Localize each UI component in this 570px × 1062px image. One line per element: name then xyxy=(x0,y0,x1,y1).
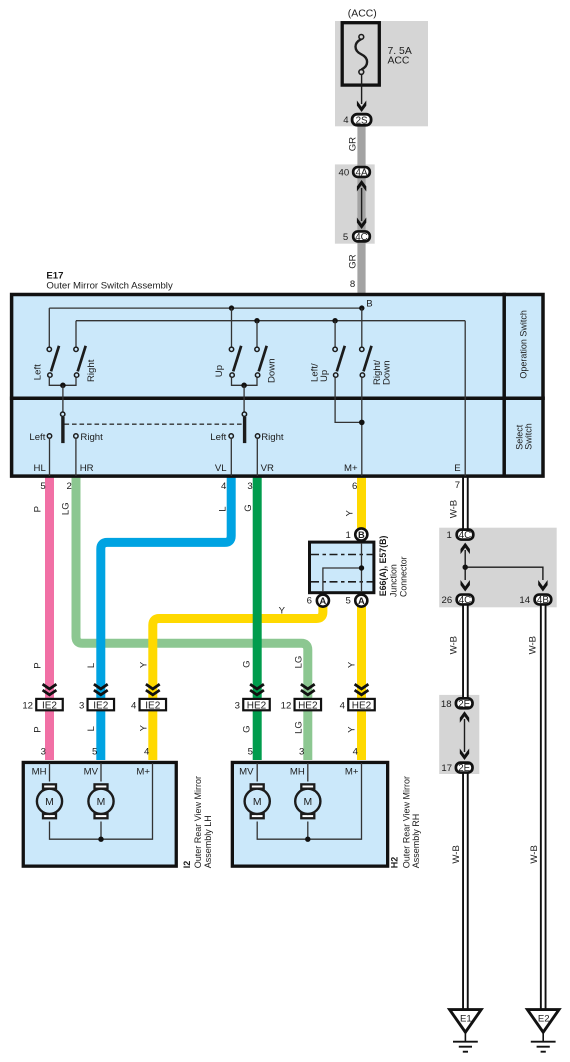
svg-text:Junction: Junction xyxy=(389,564,399,597)
select switch knob LH xyxy=(47,412,78,443)
svg-text:Assembly RH: Assembly RH xyxy=(411,814,421,869)
wire from fuse to connector 2S xyxy=(361,74,363,104)
svg-text:ACC: ACC xyxy=(388,56,410,67)
svg-text:M+: M+ xyxy=(344,463,358,474)
svg-text:7: 7 xyxy=(455,480,460,491)
connector oval 2E pin 18 xyxy=(441,698,473,709)
svg-text:Right: Right xyxy=(86,359,97,382)
svg-text:I2: I2 xyxy=(182,861,192,869)
svg-text:HL: HL xyxy=(34,463,47,474)
svg-text:2E: 2E xyxy=(458,699,470,710)
svg-text:5: 5 xyxy=(248,747,253,758)
LH internal wiring xyxy=(50,763,153,839)
arrow up toward 4C xyxy=(461,543,470,555)
svg-text:4C: 4C xyxy=(459,530,472,541)
arrow up toward 4A xyxy=(357,180,366,192)
svg-text:6: 6 xyxy=(307,596,312,607)
svg-text:SelectSwitch: SelectSwitch xyxy=(514,423,533,450)
wire W-B from connector 4B pin 14 to ground E2 xyxy=(540,604,547,1009)
svg-text:Left: Left xyxy=(33,364,44,380)
svg-text:2S: 2S xyxy=(356,116,368,127)
wire G from pin VR to HE2 pin 3 xyxy=(253,477,262,760)
svg-text:VR: VR xyxy=(261,463,274,474)
svg-text:HR: HR xyxy=(80,463,94,474)
arrow down toward 4C xyxy=(357,218,366,230)
switch contact Left xyxy=(47,346,59,378)
svg-text:5: 5 xyxy=(92,747,97,758)
connector oval 4C pin 5 xyxy=(343,231,370,242)
wire LG from pin HR to HE2 pin 12 xyxy=(76,477,308,760)
connector IE2 pin 12 xyxy=(22,699,62,712)
svg-text:W-B: W-B xyxy=(529,845,540,863)
operation/select divider xyxy=(10,397,545,401)
bus line2 xyxy=(76,320,465,322)
side column divider xyxy=(502,293,506,476)
switch contact Left/Up xyxy=(333,346,345,378)
stub to Up switch xyxy=(229,305,234,310)
svg-text:MV: MV xyxy=(84,766,99,777)
svg-text:4: 4 xyxy=(340,700,346,711)
svg-text:6: 6 xyxy=(352,481,357,492)
svg-text:Operation Switch: Operation Switch xyxy=(519,310,529,379)
svg-text:12: 12 xyxy=(22,700,33,711)
stub to Right switch xyxy=(75,321,77,347)
svg-text:LG: LG xyxy=(60,502,71,515)
stub to Right/Down switch xyxy=(361,308,363,347)
node B dot and label xyxy=(359,305,364,310)
wire Y from junction A pin 6 to IE2 pin 4 xyxy=(153,605,323,760)
arrow down toward 2E pin 17 xyxy=(460,749,469,761)
svg-text:Right: Right xyxy=(261,432,284,443)
svg-text:Right/Down: Right/Down xyxy=(372,360,393,385)
svg-text:H2: H2 xyxy=(390,857,400,869)
connector oval 4C pin 1 xyxy=(447,530,474,541)
connector shading (2E/2E in-line connector) xyxy=(439,695,479,774)
outer rear view mirror assembly LH box I2 xyxy=(23,762,176,866)
wire L from pin VL to IE2 pin 3 xyxy=(101,477,231,760)
connector shading (4A/4C in-line connector) xyxy=(335,164,375,243)
svg-text:17: 17 xyxy=(441,763,452,774)
arrow into IE2 pin 12 xyxy=(43,684,57,695)
connector IE2 pin 4 xyxy=(131,699,166,712)
svg-text:GR: GR xyxy=(347,137,358,151)
svg-text:L: L xyxy=(86,662,97,668)
svg-text:VL: VL xyxy=(215,463,227,474)
join Up+Down to select xyxy=(232,378,258,386)
svg-text:G: G xyxy=(242,660,253,667)
svg-text:B: B xyxy=(358,530,365,540)
svg-text:3: 3 xyxy=(235,700,240,711)
arrow into HE2 pin 4 xyxy=(355,684,369,695)
svg-text:MH: MH xyxy=(290,766,305,777)
wire Y from switch pin M+ to junction B xyxy=(357,477,366,529)
svg-text:18: 18 xyxy=(441,699,452,710)
junction pin 6 circle A xyxy=(307,595,329,607)
svg-text:Connector: Connector xyxy=(399,556,409,597)
arrow into HE2 pin 3 xyxy=(250,684,264,695)
ground E1 xyxy=(450,1010,482,1052)
fuse 7.5A ACC box xyxy=(342,23,379,85)
svg-text:14: 14 xyxy=(519,595,530,606)
svg-text:Down: Down xyxy=(267,358,278,383)
connector shading (4C/4B junction block) xyxy=(439,528,557,608)
connector shading (ACC fuse block) xyxy=(335,21,428,126)
svg-text:MH: MH xyxy=(32,766,47,777)
svg-text:2E: 2E xyxy=(458,763,470,774)
svg-text:W-B: W-B xyxy=(451,845,462,863)
ground E2 xyxy=(527,1010,559,1052)
svg-text:Y: Y xyxy=(345,510,356,517)
wire P from pin HL to IE2 pin 12 xyxy=(45,477,54,760)
svg-text:IE2: IE2 xyxy=(93,700,108,711)
join Left+Right to select xyxy=(49,378,76,386)
link wire 4C to 4C/4B xyxy=(465,550,543,580)
svg-text:Y: Y xyxy=(139,661,150,668)
svg-text:Outer Rear View Mirror: Outer Rear View Mirror xyxy=(193,776,203,868)
svg-text:Outer Mirror Switch Assembly: Outer Mirror Switch Assembly xyxy=(46,281,173,292)
svg-text:Outer Rear View Mirror: Outer Rear View Mirror xyxy=(402,776,412,868)
switch contact Right/Down xyxy=(360,346,372,378)
arrow into connector 2S xyxy=(357,101,366,113)
svg-text:Up: Up xyxy=(214,365,225,377)
wire to pin E inside box xyxy=(464,321,466,476)
wire W-B from pin E to connector 4C pin 1 xyxy=(462,477,469,529)
wire Y from junction A pin 5 to HE2 pin 4 xyxy=(357,605,366,760)
junction internal wiring xyxy=(323,543,362,592)
svg-text:HE2: HE2 xyxy=(247,700,267,711)
switch contact Right xyxy=(74,346,86,378)
stub to Left switch xyxy=(48,308,50,347)
svg-text:(ACC): (ACC) xyxy=(348,8,377,19)
svg-text:LG: LG xyxy=(293,721,304,734)
switch contact Up xyxy=(229,346,241,378)
join Left/Up to M+ xyxy=(335,378,362,423)
svg-text:G: G xyxy=(242,725,253,732)
svg-text:A: A xyxy=(320,596,327,606)
svg-text:40: 40 xyxy=(339,168,350,179)
svg-text:MV: MV xyxy=(239,766,254,777)
link wire 2E to 2E xyxy=(464,719,466,752)
wire W-B from connector 2E pin 17 to ground E1 xyxy=(462,772,469,1009)
svg-text:A: A xyxy=(358,596,365,606)
svg-text:4: 4 xyxy=(221,481,227,492)
wire GR from connector 2S to switch pin 8 xyxy=(357,124,365,294)
junction pin 1 circle B xyxy=(345,528,367,541)
svg-text:2: 2 xyxy=(67,481,72,492)
arrow into IE2 pin 4 xyxy=(146,684,160,695)
stub to Left/Up switch xyxy=(332,318,337,323)
switch contact Down xyxy=(255,346,267,378)
svg-text:Y: Y xyxy=(346,661,357,668)
svg-text:L: L xyxy=(86,725,97,731)
svg-text:1: 1 xyxy=(447,530,452,541)
junction bus bar upper (dash-dot) xyxy=(311,554,373,556)
svg-text:4: 4 xyxy=(144,747,150,758)
svg-text:4C: 4C xyxy=(459,595,472,606)
RH internal wiring xyxy=(257,763,361,839)
svg-text:5: 5 xyxy=(345,596,350,607)
connector oval 4A pin 40 xyxy=(339,167,370,178)
svg-text:Assembly LH: Assembly LH xyxy=(203,815,213,868)
motor M horizontal RH xyxy=(295,784,320,818)
svg-text:Y: Y xyxy=(346,726,357,733)
svg-text:E2: E2 xyxy=(538,1013,550,1024)
svg-text:IE2: IE2 xyxy=(145,700,160,711)
svg-text:26: 26 xyxy=(442,595,453,606)
svg-text:P: P xyxy=(33,506,44,512)
svg-text:GR: GR xyxy=(347,254,358,268)
svg-text:LG: LG xyxy=(293,656,304,669)
junction bus bar lower (dash-dot) xyxy=(311,581,373,583)
svg-text:Right: Right xyxy=(80,432,103,443)
wire W-B from connector 4C pin 26 to connector 2E pin 18 xyxy=(462,604,469,698)
svg-text:W-B: W-B xyxy=(449,500,460,518)
arrow into IE2 pin 3 xyxy=(94,684,108,695)
svg-text:Left: Left xyxy=(210,432,226,443)
motor M vertical RH xyxy=(245,784,270,818)
svg-text:M+: M+ xyxy=(345,766,359,777)
connector IE2 pin 3 xyxy=(79,699,114,712)
junction pin 5 circle A xyxy=(345,595,367,607)
svg-text:4: 4 xyxy=(131,700,137,711)
svg-text:3: 3 xyxy=(299,747,304,758)
link wire between 4A and 4C xyxy=(361,188,363,221)
svg-text:G: G xyxy=(243,504,254,511)
svg-text:W-B: W-B xyxy=(449,636,460,654)
svg-text:4A: 4A xyxy=(356,168,368,179)
svg-text:P: P xyxy=(33,726,44,732)
join Right/Down to M+ pin xyxy=(361,378,363,477)
svg-text:W-B: W-B xyxy=(527,636,538,654)
svg-text:B: B xyxy=(366,299,372,310)
connector oval 2S pin 4 xyxy=(343,114,371,126)
connector oval 4C pin 26 xyxy=(442,595,474,606)
svg-text:IE2: IE2 xyxy=(42,700,57,711)
mechanical link dashed xyxy=(65,423,243,425)
connector oval 4B pin 14 xyxy=(519,595,551,606)
svg-text:3: 3 xyxy=(79,700,84,711)
bus line1 from node B xyxy=(49,307,362,309)
select contact drops xyxy=(50,438,258,476)
arrow into HE2 pin 12 xyxy=(301,684,315,695)
svg-text:4: 4 xyxy=(343,115,349,126)
connector HE2 pin 12 xyxy=(281,699,321,712)
svg-text:1: 1 xyxy=(345,530,350,541)
svg-text:L: L xyxy=(218,506,229,512)
svg-text:E: E xyxy=(454,463,460,474)
svg-text:Left: Left xyxy=(29,432,45,443)
svg-text:5: 5 xyxy=(40,481,45,492)
arrow down toward 4C pin 26 xyxy=(461,580,470,592)
junction connector box E56(A) E57(B) xyxy=(310,542,374,593)
svg-text:HE2: HE2 xyxy=(298,700,318,711)
svg-text:8: 8 xyxy=(350,279,355,290)
connector HE2 pin 4 xyxy=(340,699,375,712)
connector HE2 pin 3 xyxy=(235,699,270,712)
stub to Down switch xyxy=(254,318,259,323)
connector oval 2E pin 17 xyxy=(441,763,472,774)
arrow down toward 4B pin 14 xyxy=(538,580,547,592)
svg-text:Y: Y xyxy=(139,724,150,731)
svg-text:Y: Y xyxy=(279,605,286,616)
svg-text:5: 5 xyxy=(343,232,348,243)
svg-text:M+: M+ xyxy=(136,766,150,777)
svg-text:HE2: HE2 xyxy=(352,700,372,711)
outer rear view mirror assembly RH box H2 xyxy=(232,762,387,866)
svg-text:4: 4 xyxy=(353,747,359,758)
svg-text:E1: E1 xyxy=(460,1013,472,1024)
outer mirror switch assembly box E17 xyxy=(12,295,543,477)
svg-text:12: 12 xyxy=(281,700,292,711)
fuse element symbol xyxy=(356,35,368,75)
select switch knob RH xyxy=(229,412,260,443)
svg-text:3: 3 xyxy=(247,481,252,492)
svg-text:P: P xyxy=(33,662,44,668)
svg-text:4C: 4C xyxy=(355,232,368,243)
arrow up toward 2E pin 18 xyxy=(460,711,469,723)
motor M horizontal LH xyxy=(37,784,62,818)
motor M vertical LH xyxy=(88,784,113,818)
svg-text:4B: 4B xyxy=(537,595,549,606)
svg-text:E66(A), E57(B): E66(A), E57(B) xyxy=(378,536,388,597)
svg-text:3: 3 xyxy=(41,747,46,758)
